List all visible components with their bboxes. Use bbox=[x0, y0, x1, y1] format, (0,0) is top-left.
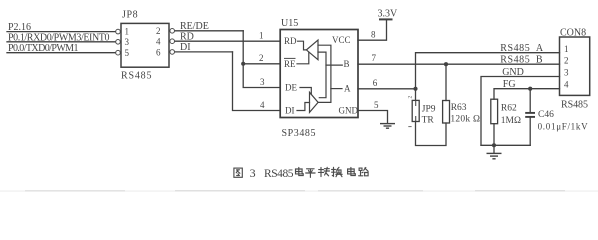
svg-text:RS485_B: RS485_B bbox=[500, 55, 543, 66]
svg-text:DE: DE bbox=[285, 83, 297, 93]
svg-text:U15: U15 bbox=[281, 18, 298, 29]
svg-text:4: 4 bbox=[260, 100, 265, 110]
svg-text:SP3485: SP3485 bbox=[282, 128, 316, 139]
svg-text:5: 5 bbox=[374, 100, 379, 110]
svg-text:1: 1 bbox=[259, 31, 264, 41]
svg-text:6: 6 bbox=[156, 47, 161, 57]
svg-text:DI: DI bbox=[285, 106, 295, 116]
svg-text:RD: RD bbox=[284, 36, 297, 46]
svg-text:B: B bbox=[344, 59, 350, 69]
svg-text:7: 7 bbox=[372, 53, 377, 63]
svg-text:5: 5 bbox=[125, 48, 130, 58]
svg-text:VCC: VCC bbox=[332, 35, 351, 45]
svg-text:JP8: JP8 bbox=[122, 9, 138, 20]
svg-text:RS485_A: RS485_A bbox=[500, 43, 544, 54]
svg-text:120k Ω: 120k Ω bbox=[450, 115, 480, 125]
svg-text:RE/DE: RE/DE bbox=[180, 21, 209, 32]
svg-text:2: 2 bbox=[564, 56, 569, 66]
svg-text:4: 4 bbox=[156, 37, 161, 47]
svg-text:GND: GND bbox=[502, 67, 524, 78]
svg-text:RS485: RS485 bbox=[264, 168, 294, 180]
svg-text:C46: C46 bbox=[538, 110, 554, 120]
svg-text:FG: FG bbox=[503, 79, 516, 90]
svg-text:RS485: RS485 bbox=[121, 71, 152, 82]
svg-text:6: 6 bbox=[373, 78, 378, 88]
svg-text:0.01μF/1kV: 0.01μF/1kV bbox=[538, 121, 589, 131]
svg-text:CON8: CON8 bbox=[560, 27, 586, 38]
svg-text:GND: GND bbox=[339, 106, 359, 116]
svg-text:RS485: RS485 bbox=[561, 100, 588, 111]
svg-text:2: 2 bbox=[407, 96, 413, 99]
svg-text:JP9: JP9 bbox=[422, 105, 436, 115]
svg-text:R62: R62 bbox=[501, 104, 517, 114]
svg-text:1: 1 bbox=[564, 44, 569, 54]
svg-text:A: A bbox=[344, 84, 351, 94]
svg-text:1: 1 bbox=[125, 27, 130, 37]
svg-text:TR: TR bbox=[422, 115, 435, 125]
svg-text:DI: DI bbox=[180, 42, 191, 53]
svg-text:3: 3 bbox=[250, 166, 256, 180]
svg-text:3: 3 bbox=[125, 37, 130, 47]
svg-text:2: 2 bbox=[156, 26, 161, 36]
svg-text:3: 3 bbox=[564, 67, 569, 77]
svg-text:P0.0/TXD0/PWM1: P0.0/TXD0/PWM1 bbox=[8, 43, 79, 54]
svg-text:2: 2 bbox=[259, 53, 264, 63]
svg-text:3.3V: 3.3V bbox=[378, 9, 399, 20]
svg-text:4: 4 bbox=[564, 79, 569, 89]
svg-text:1MΩ: 1MΩ bbox=[501, 116, 522, 126]
svg-text:RE: RE bbox=[284, 59, 296, 69]
svg-text:P0.1/RXD0/PWM3/EINT0: P0.1/RXD0/PWM3/EINT0 bbox=[8, 32, 110, 43]
svg-text:8: 8 bbox=[371, 30, 376, 40]
svg-text:R63: R63 bbox=[451, 103, 467, 113]
svg-text:3: 3 bbox=[260, 77, 265, 87]
svg-text:RD: RD bbox=[180, 32, 194, 43]
